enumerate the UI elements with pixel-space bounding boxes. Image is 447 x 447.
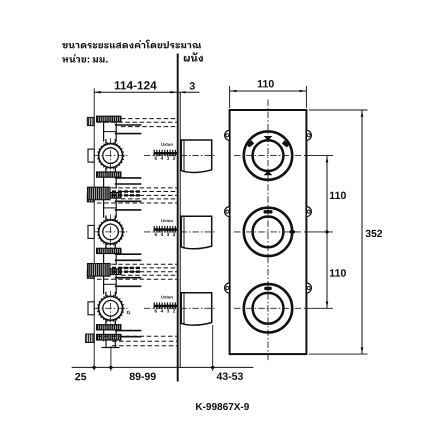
depth gauge scale 3: [154, 302, 175, 309]
index marks circle 2: [264, 210, 273, 213]
valve housing upper 2: [104, 198, 117, 218]
outlet pipes upper 3: [115, 277, 142, 279]
hidden lines mid zone 2: [97, 263, 177, 265]
extension lines width 110: [229, 86, 231, 108]
front view plate outline: [230, 110, 307, 354]
valve housing lower 2: [104, 254, 117, 265]
wall line: [177, 54, 179, 382]
valve housing upper 1: [104, 122, 117, 142]
valve trim circle 2 inner: [253, 217, 284, 248]
bottom dimension line: [72, 366, 254, 368]
outlet pipes upper 2: [115, 200, 142, 202]
index mark circle 3: [264, 287, 272, 290]
fitting below unit 3: [97, 325, 121, 330]
valve trim circle 1 outer: [244, 131, 292, 179]
label 110 top: [258, 80, 274, 88]
hidden lines top zone: [121, 118, 177, 120]
wall finished surface line: [179, 92, 181, 367]
inlet fitting top unit 3: [97, 269, 121, 275]
dimension line 110-110: [326, 156, 328, 309]
riser pipe verticals: [105, 340, 107, 348]
outlet pipes upper 1: [115, 124, 142, 126]
crossover fitting mid 2: [88, 264, 111, 277]
handle centerline 1: [144, 155, 215, 157]
note line 1 Thai: dimensions are approximate: [62, 40, 201, 49]
label 25: [75, 373, 86, 380]
inlet fitting top unit 2: [97, 193, 121, 199]
plate vertical centerline: [267, 100, 269, 362]
trim handle 1: [181, 140, 212, 172]
extension line mounting depth: [110, 346, 112, 371]
mounting ear right 3: [306, 283, 311, 293]
label 43-53: [217, 372, 243, 379]
handle centerline 2: [144, 231, 215, 233]
dimension line 114-124 and 3: [94, 91, 199, 93]
mounting ear left 2: [225, 207, 230, 217]
valve housing upper 3: [104, 275, 117, 295]
mounting ear left 1: [225, 130, 230, 140]
bonnet neck 2: [106, 215, 115, 220]
supply blocks left 3: [87, 270, 94, 278]
mounting ear right 1: [306, 130, 311, 140]
trim handle 3: [181, 293, 212, 325]
outlet pipes lower 3: [115, 330, 142, 332]
wall label Thai: [184, 52, 203, 61]
thread size label G: [127, 311, 130, 315]
depth gauge scale 1: [154, 150, 175, 157]
label 114-124: [115, 81, 157, 89]
label 110 upper right: [330, 192, 346, 200]
label 89-99: [130, 373, 156, 380]
depth gauge scale 2: [154, 226, 175, 233]
crosshair 3: [234, 307, 302, 309]
valve housing lower 3: [104, 330, 117, 341]
note line 2 Thai: unit mm: [62, 54, 107, 62]
extension lines 352: [309, 109, 368, 111]
crosshair 1: [234, 155, 302, 157]
trim handle 2: [181, 216, 212, 248]
hidden lines bottom zone: [97, 335, 177, 337]
handle centerline 3: [144, 307, 215, 309]
crossover fitting mid 1: [88, 187, 111, 200]
cartridge circle 3: [99, 296, 123, 320]
label 110 lower right: [330, 269, 346, 277]
model number K-99867X-9: [196, 403, 249, 410]
supply blocks left 1: [87, 117, 94, 125]
hidden lines mid zone 1: [97, 187, 177, 189]
fitting below unit 2: [97, 248, 121, 253]
valve trim circle 1 inner: [253, 140, 284, 171]
crosshair 2: [234, 231, 302, 233]
valve trim circle 3 outer: [244, 284, 292, 332]
dimension line 352: [361, 110, 363, 354]
outlet pipes lower 2: [115, 253, 142, 255]
label 352: [366, 230, 383, 237]
valve trim circle 3 inner: [253, 293, 284, 324]
extension line trim face: [212, 325, 214, 371]
mounting ear right 2: [306, 207, 311, 217]
bonnet neck 1: [106, 139, 115, 144]
bottom manifold: [97, 334, 121, 340]
cartridge circle 2: [99, 220, 123, 244]
valve housing lower 1: [104, 177, 117, 188]
supply blocks left 2: [87, 194, 94, 202]
outlet pipes lower 1: [115, 177, 142, 179]
cartridge circle 1: [99, 144, 123, 168]
extension lines from circle centers: [304, 155, 333, 157]
extension line left side (valve back): [93, 88, 95, 370]
valve trim circle 2 outer: [244, 208, 292, 256]
fitting below unit 1: [97, 172, 121, 177]
label 3: [190, 82, 195, 89]
inlet fitting top unit 1: [97, 116, 121, 122]
bonnet neck 3: [106, 292, 115, 297]
dimension line 110 width: [230, 90, 307, 92]
mounting ear left 3: [225, 283, 230, 293]
index marks circle 1: [264, 136, 273, 141]
